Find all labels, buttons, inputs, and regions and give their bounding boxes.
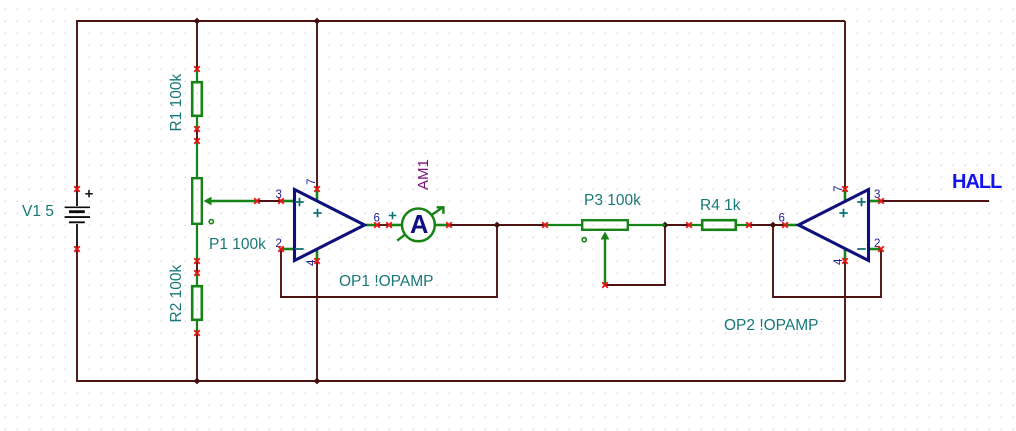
junction at P3 terminal node [662,222,669,229]
wire: top rail [77,20,845,22]
wire: OP2 V- column [844,261,846,381]
resistor R4 pin x left [686,222,692,228]
battery V1 pin x bottom [74,246,80,252]
svg-text:R2 100k: R2 100k [168,265,185,323]
wire: left rail lower (battery -) [76,249,78,382]
resistor R1 pin x top [194,66,200,72]
wire: left rail upper (battery +) [76,20,78,189]
op-amp OP1 pin x 6 [374,222,380,228]
op-amp OP1 pin x 3 [278,198,284,204]
potentiometer P1 [192,141,257,261]
resistor R2 pin x top [194,270,200,276]
svg-text:HALL: HALL [952,171,1002,193]
op-amp OP2 pin x 4 [842,258,848,264]
wire: OP1 V- column [316,261,318,381]
resistor R4 pin x right [746,222,752,228]
resistor R1 pin x bottom [194,126,200,132]
svg-text:P1 100k: P1 100k [209,236,266,253]
op-amp OP2 pin x 6 [782,222,788,228]
svg-text:OP1 !OPAMP: OP1 !OPAMP [339,273,433,290]
svg-text:OP2 !OPAMP: OP2 !OPAMP [724,317,818,334]
svg-text:R1 100k: R1 100k [168,74,185,132]
potentiometer P1 pin x top [194,138,200,144]
op-amp OP1 pin x 7 [314,186,320,192]
op-amp OP1 pin x 2 [278,246,284,252]
wire: OP1 V+ column [316,21,318,189]
op-amp OP2 pin x 2 [878,246,884,252]
wire: P1 to R2 link [196,261,198,273]
wire: OP2 feedback pin2 to output node [773,225,881,297]
junction at bottom rail / OP1 V- [314,378,321,385]
wire: R4 to OP2 output node [749,224,785,226]
svg-text:AM1: AM1 [415,159,432,190]
wire: R1 to P1 link [196,129,198,141]
op-amp OP2 [785,189,881,261]
potentiometer P3 wiper x [602,282,608,288]
wire: P3 to R4 [665,224,689,226]
junction at top rail / R1 [194,18,201,25]
potentiometer P3 pin x left [542,222,548,228]
resistor R2 pin x bottom [194,330,200,336]
wire: OP1 feedback pin2 to output node [281,225,497,297]
wire: P1 wiper to OP1 pin3 [257,200,281,202]
svg-text:A: A [410,211,428,239]
op-amp OP2 pin x 7 [842,186,848,192]
svg-text:V1 5: V1 5 [22,203,54,220]
battery V1 pin x top [74,186,80,192]
battery V1 [65,189,90,249]
svg-text:P3 100k: P3 100k [584,192,641,209]
svg-text:R4 1k: R4 1k [700,197,741,214]
potentiometer P1 pin x bottom [194,258,200,264]
junction at top rail / OP1 V+ [314,18,321,25]
ammeter AM1 pin x right [446,222,452,228]
wire: R2 to bottom rail [196,333,198,381]
wire: OP1 output to AM1 [377,224,389,226]
potentiometer P3 [545,220,665,285]
svg-text:7: 7 [306,179,318,185]
junction at bottom rail / R2 [194,378,201,385]
op-amp OP2 pin x 3 [878,198,884,204]
potentiometer P1 wiper x [254,198,260,204]
wire: OP2 pin3 to HALL [881,200,989,202]
wire: bottom rail [77,380,845,382]
junction at OP1 output node [494,222,501,229]
battery V1 plus polarity mark [85,190,92,197]
op-amp OP1 pin x 4 [314,258,320,264]
wire: AM1 to P3 [449,224,545,226]
ammeter AM1 [389,206,449,241]
junction at OP2 output node [770,222,777,229]
wire: R1 top feed [196,21,198,69]
ammeter AM1 pin x left [386,222,392,228]
resistor R1 [192,69,202,129]
op-amp OP1 [281,189,377,261]
resistor R2 [192,273,202,333]
resistor R4 [689,220,749,230]
wire: OP2 V+ column [844,21,846,189]
wire: P3 wiper return [605,225,665,285]
